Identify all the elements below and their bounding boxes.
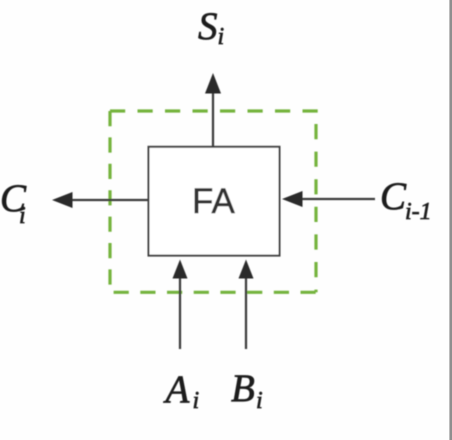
dashed cell boundary: bottom edge (114, 291, 316, 294)
svg-text:i-1: i-1 (405, 199, 432, 225)
dashed cell boundary: right edge (314, 124, 317, 292)
wire: carry-out C_i (horizontal, left from FA) (70, 199, 148, 201)
svg-text:C: C (380, 175, 407, 218)
svg-text:i: i (256, 388, 263, 414)
svg-text:i: i (218, 24, 225, 50)
wire: input A_i (vertical, up into bottom of FA) (179, 277, 181, 349)
svg-text:B: B (231, 367, 255, 410)
arrowhead: A_i input (173, 260, 188, 279)
svg-text:FA: FA (192, 182, 235, 221)
arrowhead: C_i output (52, 192, 73, 208)
arrowhead: B_i input (239, 260, 254, 279)
full adder block FA (149, 147, 280, 256)
arrowhead: S_i output (205, 73, 221, 94)
wire: carry-in C_i-1 (horizontal, from right toward FA) (300, 198, 375, 200)
svg-text:i: i (193, 388, 200, 414)
wire: input B_i (vertical, up into bottom of FA) (245, 277, 247, 349)
svg-text:i: i (19, 203, 26, 229)
arrowhead: C_i-1 input (282, 191, 303, 207)
svg-text:A: A (163, 368, 190, 411)
svg-text:S: S (198, 5, 218, 48)
dashed cell boundary: top edge (110, 109, 318, 112)
dashed cell boundary: left edge (108, 111, 111, 285)
wire: sum output S_i (vertical, up from top of FA) (212, 91, 214, 147)
